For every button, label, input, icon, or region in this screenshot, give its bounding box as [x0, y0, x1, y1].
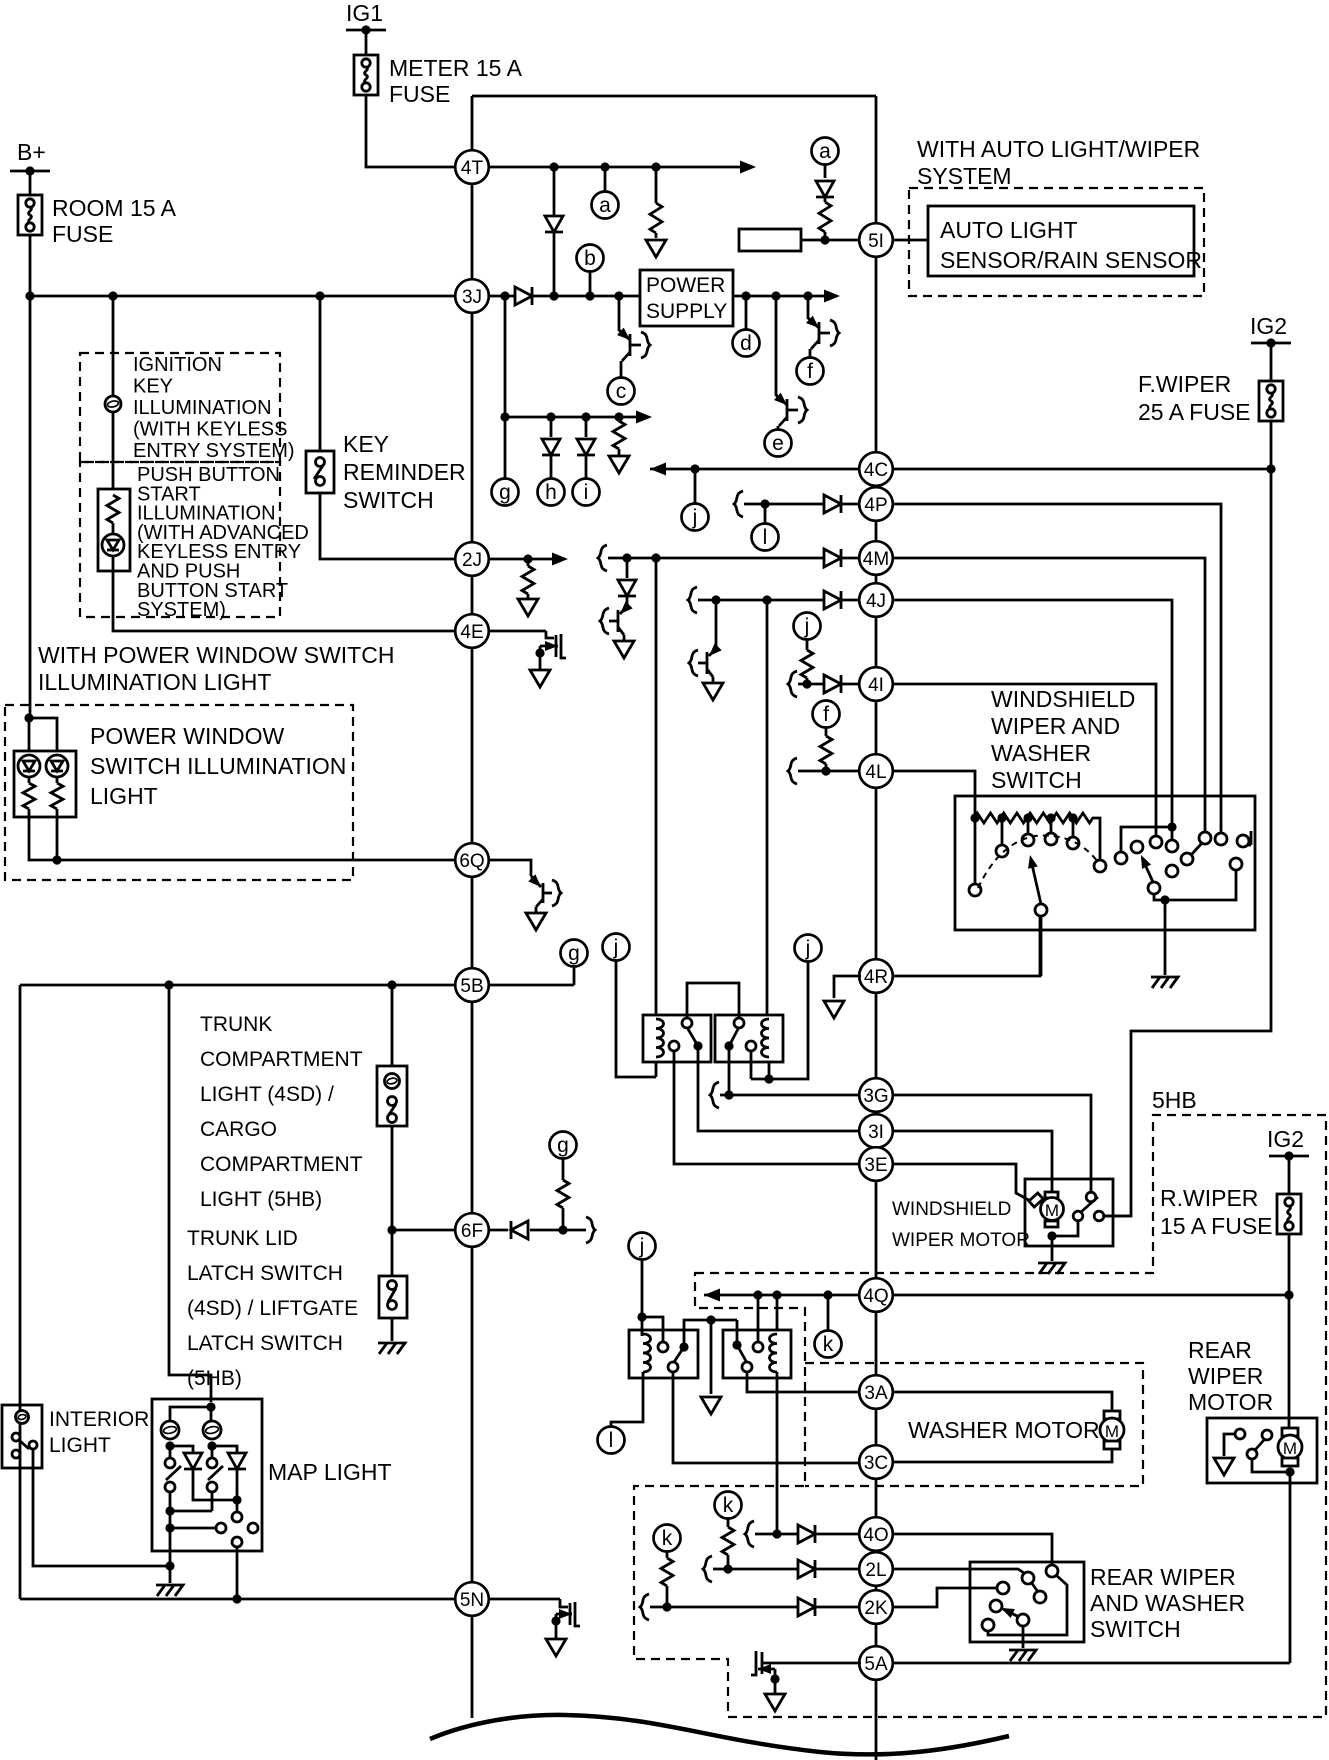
wiper selector arm — [1031, 860, 1041, 904]
junction — [651, 162, 660, 171]
node k (2L feed) — [654, 1525, 681, 1552]
junction — [25, 291, 34, 300]
wire 4L row — [798, 770, 861, 773]
power source IG2 (rear) — [1269, 1155, 1309, 1158]
box trunk compartment light switch — [377, 1066, 407, 1126]
wire f to resistor — [825, 728, 828, 736]
connector 6F — [455, 1213, 489, 1247]
svg-text:g: g — [499, 481, 511, 504]
wire 4J common stem — [1171, 827, 1174, 840]
svg-text:3E: 3E — [864, 1155, 887, 1176]
wire 5B to map light — [169, 985, 211, 1402]
connector 3J — [455, 279, 489, 313]
wire g to resistor — [562, 1159, 565, 1180]
node e — [765, 430, 792, 457]
wire 3E to wiper motor — [892, 1164, 1034, 1203]
contact park switch (f.wiper) — [1094, 1211, 1104, 1221]
junction bulb1 low — [165, 1441, 174, 1450]
wire power supply output — [733, 295, 836, 298]
arrow 4Q row (left) — [704, 1289, 720, 1302]
resistor power window 1 — [23, 783, 35, 809]
wire 2L to rear switch — [892, 1569, 1024, 1573]
wire map feed to bulb1 — [170, 1407, 211, 1421]
junction — [108, 291, 117, 300]
wire resistor to 5I line — [824, 232, 827, 240]
junction — [581, 412, 590, 421]
wire break at 4M transistor — [600, 608, 609, 634]
dashed box push button start illumination — [80, 462, 280, 617]
node j (4I feed) — [794, 613, 821, 640]
connector box (unlabelled) — [739, 229, 801, 251]
wire washer contacts to ground leg — [1166, 870, 1236, 900]
motor M (washer) — [1100, 1411, 1124, 1449]
wire tap stem — [1050, 818, 1053, 833]
contact relay4 NC — [742, 1362, 752, 1372]
wire 2L row — [713, 1568, 861, 1571]
wire break 4O row — [745, 1521, 754, 1547]
svg-text:4I: 4I — [868, 675, 884, 696]
contact relay1 NC — [669, 1041, 679, 1051]
svg-text:f: f — [807, 360, 813, 383]
svg-text:B+: B+ — [17, 139, 46, 165]
box windshield wiper and washer switch — [955, 796, 1255, 930]
wire 4L to wiper switch wiper track — [892, 771, 975, 818]
arrowhead washer arm — [1136, 853, 1151, 869]
junction — [523, 554, 532, 563]
wire bridge to open arrow — [710, 1320, 713, 1394]
contact map switch 1b — [165, 1482, 175, 1492]
junction power window feed — [24, 713, 33, 722]
node a — [592, 192, 619, 219]
wire resistor to arrow — [527, 594, 530, 598]
wire IG2 to f.wiper fuse — [1270, 343, 1273, 381]
junction — [558, 1225, 567, 1234]
junction — [723, 1564, 732, 1573]
node j (relay feed left) — [603, 934, 630, 961]
track tap 2 — [997, 813, 1006, 822]
dashed wiper selector arc — [978, 836, 1098, 888]
node l — [752, 524, 779, 551]
svg-text:j: j — [804, 615, 810, 638]
relay2 switch arm — [729, 1029, 738, 1046]
junction — [760, 499, 769, 508]
junction — [500, 291, 509, 300]
wire break 4M row — [598, 545, 607, 571]
LED power window 1 — [18, 755, 40, 777]
contact relay2 NC — [746, 1041, 756, 1051]
wire B+ to room fuse — [29, 171, 32, 195]
wire break 2K row — [640, 1594, 649, 1620]
wire 6F left — [392, 1229, 456, 1232]
wire relay3 coil to node l — [611, 1372, 643, 1426]
contact relay4 NO — [753, 1342, 763, 1352]
wire resistor to 4L row — [825, 764, 828, 771]
wire to key reminder switch — [319, 296, 322, 451]
connector 4C — [859, 452, 893, 486]
contact rear park common — [1247, 1449, 1257, 1459]
contact INT2 — [1022, 834, 1034, 846]
svg-text:2J: 2J — [462, 550, 482, 571]
wire break 4L row — [788, 758, 797, 784]
wire map jumper to switch 2 — [170, 1510, 212, 1513]
wire break at transistor c — [641, 332, 650, 358]
resistor pull-down — [650, 203, 662, 233]
latch switch arm — [388, 1288, 396, 1302]
arrowhead transistor 4M branch — [616, 601, 632, 617]
wire 6Q to transistor — [488, 860, 531, 876]
svg-text:d: d — [740, 332, 752, 355]
diode after 3J — [515, 287, 532, 305]
arrowhead transistor 6Q — [528, 874, 544, 890]
wire 4Q row — [704, 1294, 861, 1297]
wire j to relay contact — [751, 962, 808, 1079]
junction ground leg — [1160, 895, 1169, 904]
junction 4Q / r.wiper — [1284, 1290, 1293, 1299]
dashed boundary rear wiper/washer system — [634, 1115, 1326, 1717]
svg-text:c: c — [616, 380, 627, 403]
trunk light switch arm — [388, 1104, 396, 1116]
node j (rear relay feed) — [629, 1233, 656, 1260]
wire 5N to MOSFET — [488, 1598, 560, 1601]
connector 3I — [859, 1114, 893, 1148]
contact rear switch common — [1017, 1614, 1029, 1626]
wire LED2 leg down — [56, 809, 59, 860]
node b — [577, 245, 604, 272]
wire rear switch to ground — [1022, 1626, 1025, 1648]
wire power window to 6Q — [29, 809, 456, 860]
diode 4O row — [798, 1525, 815, 1543]
contact trunk light lower — [388, 1114, 397, 1123]
junction — [724, 1090, 733, 1099]
connector 3C — [859, 1445, 893, 1479]
wire g/h/i feed row — [505, 416, 648, 419]
open arrow rear park — [1214, 1458, 1234, 1475]
contact washer 4 — [1166, 840, 1178, 852]
connector 2L — [859, 1552, 893, 1586]
contact washer 4b — [1166, 865, 1178, 877]
bulb map light 2 — [203, 1421, 221, 1439]
wire resistor to 2K row — [666, 1586, 669, 1607]
contact washer arm pivot — [1148, 882, 1160, 894]
contact interior light 1 — [12, 1433, 20, 1441]
fuse METER 15 A — [354, 55, 378, 95]
contact relay1 NO — [682, 1018, 692, 1028]
wire 4Q to rear wiper feed — [892, 1294, 1289, 1297]
junction — [585, 291, 594, 300]
transistor (4J branch) — [698, 600, 716, 682]
wire 4O to rear switch — [892, 1534, 1052, 1565]
wire bulb2 to diode — [212, 1446, 237, 1452]
junction — [662, 1602, 671, 1611]
track tap 1 — [970, 813, 979, 822]
wire 5B to node g — [488, 984, 574, 987]
wire 4J to washer switch common — [892, 600, 1172, 827]
junction rear motor low side — [1285, 1467, 1294, 1476]
contact rear switch (2L) — [1022, 1572, 1034, 1584]
wire 4E to MOSFET — [488, 630, 546, 633]
node l — [598, 1427, 625, 1454]
connector 5B — [455, 968, 489, 1002]
junction MOSFET 5N source — [551, 1616, 560, 1625]
resistor 4O feed — [722, 1527, 734, 1555]
open arrow 4R — [824, 1001, 844, 1018]
contact map 5 — [232, 1537, 242, 1547]
junction — [820, 235, 829, 244]
wire diode to h — [550, 456, 553, 478]
relay3 common — [679, 1342, 688, 1351]
node f (4L feed) — [813, 701, 840, 728]
dashed box ignition key illumination — [80, 353, 280, 462]
svg-text:4C: 4C — [864, 460, 888, 481]
wire 5A to MOSFET — [762, 1662, 861, 1665]
LED power window 2 — [46, 755, 68, 777]
contact rear switch mid — [1034, 1591, 1046, 1603]
wire tap stem — [1072, 818, 1075, 837]
svg-text:4T: 4T — [461, 158, 484, 179]
MOSFET (4E driver) — [540, 631, 566, 658]
svg-text:2K: 2K — [864, 1598, 888, 1619]
wire to diode i — [585, 417, 588, 437]
contact rail right — [1247, 831, 1251, 845]
svg-text:IG2: IG2 — [1250, 313, 1287, 339]
wire resistor to LED — [112, 523, 115, 534]
track tap 3 — [1023, 813, 1032, 822]
ground rear wiper switch — [1009, 1650, 1036, 1661]
wire j to resistor — [806, 640, 809, 650]
wire to resistor 2J — [527, 559, 530, 566]
wire 2K to rear switch — [892, 1588, 997, 1607]
wire LED2 to resistor — [56, 777, 59, 783]
junction — [546, 412, 555, 421]
relay1 common — [693, 1041, 702, 1050]
wire 4T feed row — [488, 166, 752, 169]
relay coil 3 — [643, 1334, 651, 1372]
wire 3J branch down — [504, 296, 507, 417]
wire break 2L row — [703, 1556, 712, 1582]
wire break 3G row — [710, 1082, 719, 1108]
junction map 1 — [165, 1506, 174, 1515]
washer selector arm — [1142, 858, 1153, 882]
svg-text:l: l — [609, 1429, 614, 1452]
arrowhead MOSFET 5N — [559, 1609, 572, 1619]
wire 5I to auto light sensor — [892, 239, 928, 242]
wire 4C row — [650, 468, 861, 471]
wire tap stem — [1001, 818, 1004, 845]
wire diode to break — [530, 1229, 586, 1232]
svg-text:3A: 3A — [864, 1383, 888, 1404]
junction — [52, 855, 61, 864]
connector 3A — [859, 1375, 893, 1409]
contact relay2 NO — [734, 1018, 744, 1028]
svg-text:5HB: 5HB — [1152, 1087, 1197, 1113]
svg-text:IG1: IG1 — [346, 0, 383, 26]
contact relay3 NO — [658, 1342, 668, 1352]
svg-text:6Q: 6Q — [459, 851, 484, 872]
node j — [682, 504, 709, 531]
dashed box auto light/wiper system — [909, 188, 1204, 296]
park switch arm — [1081, 1197, 1098, 1212]
relay box (rear wiper relay 1) — [629, 1330, 698, 1378]
connector 3G — [859, 1078, 893, 1112]
wire 2J output — [488, 558, 564, 561]
dashed box washer motor — [805, 1363, 1143, 1486]
wire LED1 to resistor — [28, 777, 31, 783]
connector 4T — [455, 150, 489, 184]
relay box (wiper relay 2) — [715, 1015, 783, 1062]
wiper motor ground node — [1047, 1231, 1056, 1240]
wire map light to 5N rail — [236, 1547, 239, 1599]
contact INT3 — [1045, 833, 1057, 845]
wire relay3 NC to 3C — [673, 1372, 861, 1463]
open arrow 5A MOSFET — [765, 1694, 785, 1711]
wire break at transistor e — [798, 397, 807, 423]
connector 4O — [859, 1517, 893, 1551]
junction — [500, 412, 509, 421]
resistor on g/h/i row — [613, 421, 625, 449]
wire park common to ground node — [1052, 1221, 1078, 1236]
power source B+ — [10, 170, 50, 173]
relay2 common — [724, 1041, 733, 1050]
wire B+ rail down to power window light — [29, 296, 32, 718]
wire diode to resistor — [824, 197, 827, 202]
wire top link 4T to right bus — [472, 95, 876, 98]
wire 4O row — [755, 1533, 861, 1536]
wire k to resistor — [727, 1519, 730, 1527]
svg-text:2L: 2L — [865, 1560, 886, 1581]
wire a to diode — [824, 165, 827, 178]
wire to resistor — [655, 167, 658, 203]
diode sensor feed — [816, 181, 834, 197]
svg-text:IG2: IG2 — [1267, 1126, 1304, 1152]
svg-text:e: e — [772, 432, 784, 455]
relay coil 2 — [762, 1019, 770, 1057]
arrowhead MOSFET 4E — [545, 641, 558, 651]
wire to diode h — [550, 417, 553, 437]
resistor 4I feed — [801, 650, 813, 678]
diode on 4T-3J branch — [545, 216, 563, 232]
box power window illumination LEDs — [14, 751, 76, 817]
svg-text:4P: 4P — [864, 495, 887, 516]
junction relay bridge — [706, 1315, 715, 1324]
contact INT1 — [996, 845, 1008, 857]
relay coil 4 — [770, 1334, 778, 1372]
wire to ground — [169, 1566, 172, 1583]
node f — [797, 358, 824, 385]
svg-text:3J: 3J — [462, 287, 482, 308]
diode 6F row — [511, 1221, 528, 1239]
relay4 switch arm — [737, 1345, 746, 1361]
wire room fuse down to 3J rail — [29, 235, 32, 296]
junction 5N rail — [232, 1594, 241, 1603]
open arrow 4M transistor — [614, 641, 634, 658]
wire right bus — [875, 96, 878, 1760]
wire latch switch to ground — [391, 1318, 394, 1341]
transistor (node e driver) — [776, 296, 798, 430]
contact selector pivot — [1035, 904, 1047, 916]
box rear wiper and washer switch — [970, 1562, 1084, 1642]
connector 4L — [859, 754, 893, 788]
svg-text:k: k — [662, 1527, 673, 1550]
wire 4C to F.WIPER feed — [892, 468, 1271, 471]
junction — [771, 291, 780, 300]
svg-text:j: j — [805, 937, 811, 960]
open arrow relay bridge — [701, 1397, 721, 1414]
wire node j stem — [694, 469, 697, 503]
wire to LED 2 — [29, 718, 57, 751]
wire relay NO bridge — [687, 983, 739, 1018]
svg-text:M: M — [1105, 1422, 1119, 1441]
diode map light 2 — [228, 1453, 246, 1469]
wire 5B to trunk light switch — [391, 985, 394, 1066]
wire r.wiper fuse to rear motor — [1288, 1234, 1291, 1428]
map switch arm 2 — [208, 1466, 223, 1480]
bulb ignition key illumination — [105, 396, 121, 412]
wire 4T to 3J branch — [553, 167, 556, 296]
wire 6F right — [488, 1229, 508, 1232]
junction — [762, 595, 771, 604]
wire j to relay coil 3 — [641, 1260, 644, 1336]
wire to node a stem — [604, 167, 607, 191]
connector 4I — [859, 667, 893, 701]
wire 3A to washer motor — [892, 1392, 1112, 1412]
wire resistor to 4I row — [806, 678, 809, 684]
contact map switch 1a — [165, 1458, 175, 1468]
svg-text:a: a — [599, 194, 611, 217]
contact map 7 — [248, 1523, 258, 1533]
junction — [772, 1290, 781, 1299]
wire 4M to washer switch — [892, 558, 1205, 832]
wire IG1 to meter fuse — [365, 30, 368, 55]
wire rear motor to 5A — [1289, 1472, 1292, 1663]
wire node l stem — [764, 504, 767, 523]
svg-text:i: i — [584, 481, 589, 504]
wire 4I row — [798, 683, 861, 686]
wire node g stem — [573, 967, 576, 985]
svg-text:k: k — [723, 1494, 734, 1517]
diode 4M branch — [618, 580, 636, 596]
connector 4R — [859, 959, 893, 993]
wire to diode 4M branch — [626, 558, 629, 578]
junction — [1266, 464, 1275, 473]
contact rear switch aux — [982, 1619, 994, 1631]
wire MOSFET to arrow — [774, 1679, 777, 1693]
junction map ground — [165, 1561, 174, 1570]
node i — [573, 479, 600, 506]
wire to LED 1 — [28, 718, 31, 751]
svg-text:4R: 4R — [864, 967, 888, 988]
svg-text:f: f — [823, 703, 829, 726]
arrow g/h/i row — [636, 411, 652, 424]
wire break at 6Q transistor — [552, 880, 561, 906]
wire switch ground leg — [1164, 900, 1167, 975]
svg-text:3I: 3I — [868, 1122, 884, 1143]
contact interior light 2 — [29, 1441, 37, 1449]
junction relay3 feed — [637, 1312, 646, 1321]
box key reminder switch — [306, 451, 334, 493]
open arrow 4E MOSFET — [530, 670, 550, 687]
contact map switch 2a — [207, 1458, 217, 1468]
wire 4M row — [608, 557, 861, 560]
wire trunk light to latch switch — [391, 1126, 394, 1276]
resistor 6F feed — [557, 1180, 569, 1208]
svg-text:5B: 5B — [460, 976, 483, 997]
open arrow 4J transistor — [703, 683, 723, 700]
contact washer 7 (4P) — [1215, 833, 1227, 845]
contact washer 3 (4I) — [1150, 836, 1162, 848]
svg-text:6F: 6F — [461, 1221, 483, 1242]
box rear wiper motor — [1207, 1418, 1317, 1483]
junction — [315, 291, 324, 300]
